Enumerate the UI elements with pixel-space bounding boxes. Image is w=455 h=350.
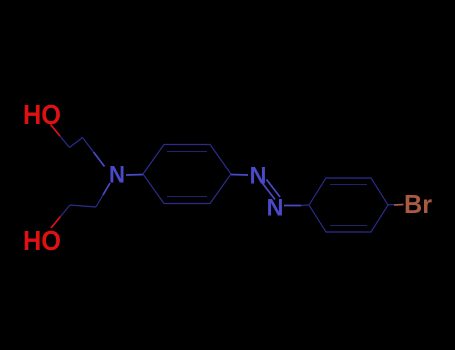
bond ring1-N1 (drawn in nitrogen colour) — [231, 174, 248, 177]
benzene ring 2 — [309, 178, 388, 232]
svg-text:N: N — [109, 162, 125, 189]
bond C1-C2 (lower) — [70, 205, 96, 207]
bond O-C1 (upper, red half) — [51, 125, 61, 137]
benzene ring 1 — [143, 145, 231, 204]
bond C2-N (upper, nitrogen half) — [94, 152, 105, 167]
bond C2-N (lower, nitrogen half) — [103, 183, 110, 195]
bond ring2-Br (carbon half) — [388, 204, 394, 207]
bond ring2-Br (bromine half) — [394, 204, 404, 207]
bond N-ring1 (drawn in nitrogen colour) — [126, 174, 143, 177]
bond O-C1 (lower, red half) — [51, 217, 61, 229]
svg-text:N: N — [267, 195, 284, 222]
bond C2-N (lower, carbon half) — [96, 195, 103, 207]
bond N2-ring2 (nitrogen half) — [284, 205, 301, 207]
ring 2 inner double bond (top) — [330, 184, 367, 186]
bond N2-ring2 (carbon half) — [301, 204, 309, 207]
azo N=N double bond line 2 — [267, 180, 281, 198]
svg-text:Br: Br — [404, 189, 432, 219]
bond O-C1 (upper, carbon half) — [60, 136, 70, 148]
ring 1 inner double bond (bottom) — [167, 196, 207, 198]
bond O-C1 (lower, carbon half) — [61, 205, 71, 217]
svg-text:HO: HO — [23, 99, 61, 130]
svg-text:HO: HO — [23, 225, 61, 256]
bond C2-N (upper, carbon half) — [83, 138, 94, 153]
ring 2 inner double bond (bottom) — [330, 225, 367, 227]
ring 1 inner double bond (top) — [167, 151, 207, 153]
azo N=N double bond line 1 — [262, 182, 276, 200]
bond C1-C2 (upper) — [70, 138, 83, 148]
